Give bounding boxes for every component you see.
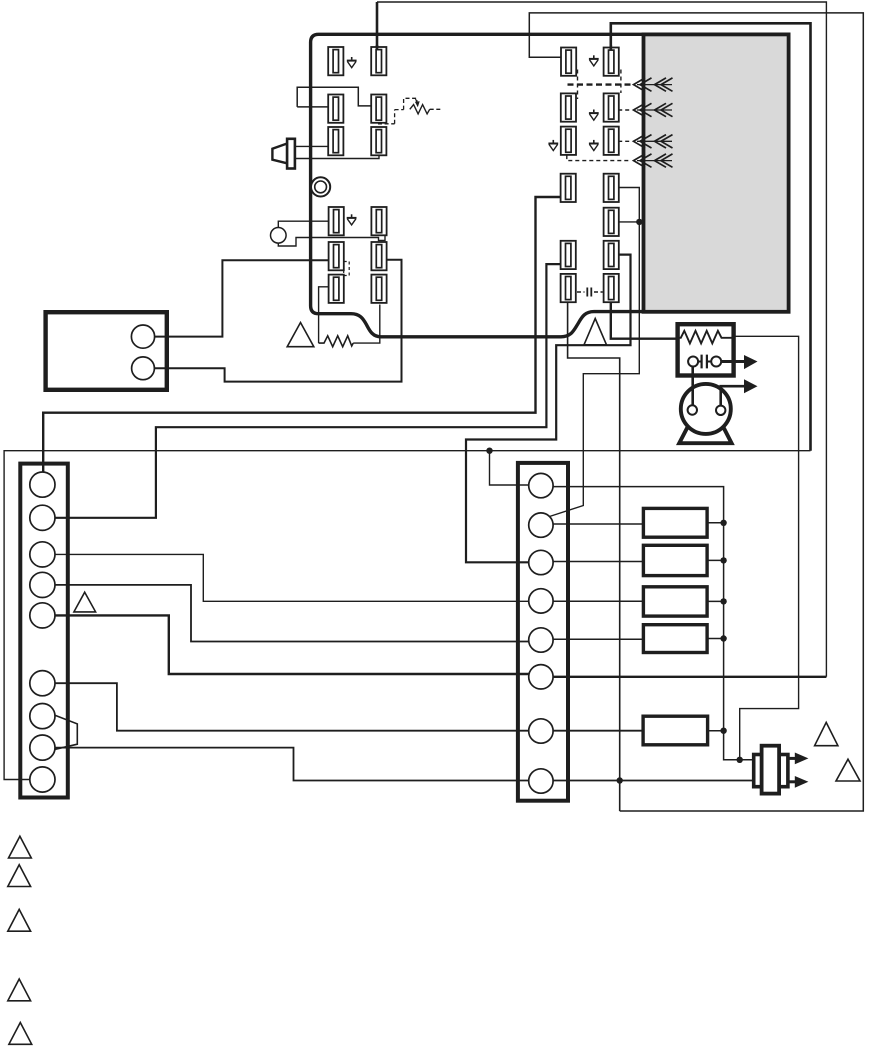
note triangle 4 xyxy=(8,979,31,1001)
right strip circle 5 xyxy=(529,628,553,652)
wire W2: upper-right terminal over top, down right edge, along bottom xyxy=(529,13,863,811)
wire right strip circle 2 to relay 1 xyxy=(553,523,643,525)
harness arrows row 1 xyxy=(634,78,673,91)
harness arrows row 4 xyxy=(634,154,673,167)
right terminal strip xyxy=(518,463,568,801)
wire common: right strip circle 1 to relay commons and connector xyxy=(541,487,754,760)
motor terminal circle 2 xyxy=(716,406,725,415)
wire igniter return to connector xyxy=(734,336,799,760)
wire relay 2 common stub xyxy=(707,559,724,561)
quick-connect terminal A1L xyxy=(328,47,343,75)
left strip circle 4 xyxy=(30,572,55,597)
quick-connect terminal B1L xyxy=(329,207,344,235)
wire line C: strip circle 9 long run to W3 xyxy=(4,451,810,780)
polarity arrow top-left group xyxy=(347,57,357,68)
left strip circle 9 xyxy=(30,767,55,792)
dashed jumper links top-right group xyxy=(567,70,631,161)
arrow from motor xyxy=(744,379,758,393)
wire branch to right strip circle 1 xyxy=(490,451,541,485)
relay 5 xyxy=(643,716,708,745)
left strip circle 3 xyxy=(30,542,55,567)
wire line B: strip circle 2 to board row-C left terminal xyxy=(55,264,561,518)
dashed link near mid-left terminal xyxy=(344,262,350,276)
quick-connect terminal C3R xyxy=(604,127,619,155)
quick-connect terminal C2L xyxy=(561,93,576,121)
quick-connect terminal DCL xyxy=(561,241,576,269)
junction node relay 2 xyxy=(720,557,726,563)
junction node relay 1 xyxy=(720,520,726,526)
left strip circle 8 xyxy=(30,735,55,760)
left strip circle 2 xyxy=(30,505,55,530)
wire right strip circle 4 to relay 3 xyxy=(553,600,643,602)
right strip circle 1 xyxy=(529,473,553,497)
warning triangle 1 at board bottom-left xyxy=(287,323,314,347)
quick-connect terminal B2L xyxy=(329,242,344,270)
plug connector bottom right xyxy=(754,746,788,794)
relay 2 xyxy=(643,545,707,575)
relay 1 xyxy=(643,508,707,537)
quick-connect terminal DAL xyxy=(561,174,576,202)
arrow from igniter box xyxy=(744,355,758,369)
wire sensor circle to row-1 terminals xyxy=(278,221,385,246)
polarity arrow mid-left group xyxy=(347,214,357,225)
right strip circle 3 xyxy=(529,550,553,574)
quick-connect terminal DCR xyxy=(604,241,619,269)
wire relay 4 common stub xyxy=(707,638,724,640)
control box shaded area (gray block) xyxy=(644,34,789,311)
relay 4 xyxy=(643,625,707,653)
motor terminal circle 1 xyxy=(688,405,697,414)
motor lead wires xyxy=(693,367,745,406)
warning triangle T1 xyxy=(815,722,838,745)
wire speaker leads xyxy=(295,146,379,158)
dashed capacitor between row-D terminals xyxy=(577,288,603,297)
warning triangle 2 at board bottom-right xyxy=(584,319,607,345)
quick-connect terminal B1R xyxy=(371,207,386,235)
grommet double circle on board edge xyxy=(311,177,330,196)
left terminal strip xyxy=(20,464,68,798)
speaker / buzzer on board edge xyxy=(272,139,295,169)
wire igniter feed from row-D right terminal xyxy=(611,300,678,339)
junction node relay 3 xyxy=(720,598,726,604)
junction node connector feed xyxy=(737,757,743,763)
harness arrows row 2 xyxy=(634,103,673,116)
wire L4: left strip circle 4 to right strip circle 5 xyxy=(55,585,541,642)
wire stub into terminal A1R xyxy=(376,45,379,50)
wire transformer secondary 2 loop to board terminal xyxy=(155,260,402,382)
warning triangle T2 xyxy=(836,759,860,781)
quick-connect terminal A3R xyxy=(371,127,386,155)
junction node bottom bus xyxy=(617,777,623,783)
motor base xyxy=(679,427,731,443)
right strip circle 2 xyxy=(529,513,553,537)
left strip circle 1 xyxy=(30,472,55,497)
right strip circle 7 xyxy=(529,719,553,743)
right strip circle 6 xyxy=(529,665,553,689)
polarity arrow top-right row2 xyxy=(589,110,599,121)
wire W1: board upper-left terminal up over top to right side down to terminal strip xyxy=(377,2,826,677)
wire L6: left strip circle 6 to right strip circle 7 and relay 5 xyxy=(55,683,643,731)
right strip circle 4 xyxy=(529,589,553,613)
wire relay 3 common stub xyxy=(707,600,724,602)
wire line A: terminal strip circle 1 to board row-A left terminal xyxy=(43,197,560,478)
junction node on line C xyxy=(486,448,492,454)
wire W3: thick wire from right terminal up and down right side to node line C xyxy=(611,23,811,450)
transformer box xyxy=(46,312,167,390)
wire transformer secondary 1 to board terminal xyxy=(155,260,329,336)
wire L5: left strip circle 5 to right strip circle 6 and W1 xyxy=(55,615,826,676)
wire P2: board row-A/B right terminals to right strip circle 2 xyxy=(550,188,640,517)
wire relay 5 common stub xyxy=(708,730,724,732)
inducer motor circle xyxy=(681,384,731,434)
note triangle 5 xyxy=(9,1023,32,1045)
wire row-D left terminal down to bottom junction xyxy=(568,300,620,811)
quick-connect terminal A2L xyxy=(328,95,343,123)
quick-connect terminal B3L xyxy=(329,275,344,303)
resistor under board with leads xyxy=(319,287,380,347)
polarity arrow left of row3 xyxy=(548,140,558,151)
polarity arrow top-right row3 xyxy=(589,140,599,151)
junction node row B xyxy=(636,219,642,225)
left strip circle 7 xyxy=(30,704,55,729)
sensor circle left of board xyxy=(271,228,287,244)
quick-connect terminal DBR xyxy=(604,208,619,236)
quick-connect terminal A2R xyxy=(371,95,386,123)
left strip jumper bracket xyxy=(53,715,77,750)
wire L8: left strip circle 8 to right strip circle 8 and connector xyxy=(55,748,754,781)
quick-connect terminal DDR xyxy=(604,274,619,302)
harness arrows row 3 xyxy=(634,135,673,148)
quick-connect terminal B2R xyxy=(371,242,386,270)
transformer terminal circles xyxy=(131,325,154,380)
quick-connect terminal C1L xyxy=(561,48,576,76)
wire P1: board row-C right terminal to right strip circle 3 xyxy=(466,255,631,563)
quick-connect terminal C3L xyxy=(561,127,576,155)
wire right strip circle 5 to relay 4 xyxy=(553,638,643,640)
left strip circle 5 xyxy=(30,603,55,628)
quick-connect terminal DDL xyxy=(561,274,576,302)
dashed trimpot circuit upper-left xyxy=(378,98,441,124)
quick-connect terminal A1R xyxy=(371,47,386,75)
relay 3 xyxy=(643,587,707,616)
quick-connect terminal A3L xyxy=(328,127,343,155)
quick-connect terminal C1R xyxy=(604,48,619,76)
quick-connect terminal C2R xyxy=(604,93,619,121)
note triangle 1 xyxy=(9,836,32,858)
plug connector arrow 1 xyxy=(787,753,809,765)
right strip circle 8 xyxy=(529,769,553,793)
polarity arrow top-right row1 xyxy=(589,55,599,66)
plug connector arrow 2 xyxy=(787,776,809,788)
junction node relay 4 xyxy=(720,635,726,641)
wire L3: left strip circle 3 to right strip circle 4 xyxy=(55,554,541,601)
control board outline xyxy=(311,34,644,337)
warning triangle near left strip xyxy=(74,592,96,612)
wire right strip circle 3 to relay 2 xyxy=(553,561,643,563)
note triangle 3 xyxy=(8,909,31,931)
junction node relay 5 xyxy=(720,728,726,734)
igniter box with resistor and capacitor xyxy=(678,324,744,375)
left strip circle 6 xyxy=(30,671,55,696)
connector tab on board left edge xyxy=(297,87,371,107)
quick-connect terminal DAR xyxy=(604,174,619,202)
wire stub into terminal C1R xyxy=(609,45,612,51)
quick-connect terminal B3R xyxy=(371,275,386,303)
note triangle 2 xyxy=(8,865,31,887)
wire relay 1 common stub xyxy=(707,522,724,524)
